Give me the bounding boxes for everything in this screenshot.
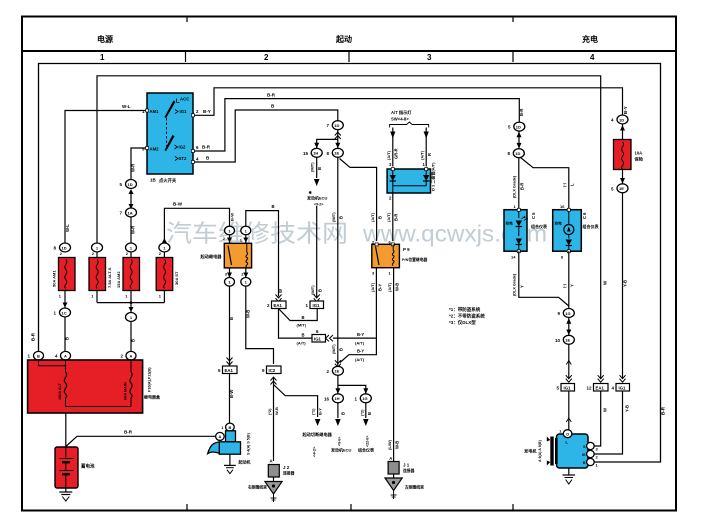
- svg-text:B: B: [37, 354, 40, 359]
- fuse output bus: [97, 302, 164, 304]
- connector J1: [388, 456, 414, 474]
- wire 2(1E) fork to 16(1H) and 1(1G): [338, 375, 366, 393]
- wire C6 pin8 down to 9(1G): [568, 251, 570, 308]
- svg-text:发动机ECU: 发动机ECU: [330, 447, 352, 453]
- connector box 5 EA1: [218, 366, 237, 374]
- svg-text:(A/T): (A/T): [386, 150, 391, 160]
- svg-text:保险: 保险: [634, 156, 644, 163]
- svg-text:Y: Y: [570, 284, 575, 287]
- double chevron into 5 IG1: [566, 375, 572, 382]
- wire 8(1D) to C5: [518, 158, 520, 210]
- svg-text:F10(A),F11(B): F10(A),F11(B): [148, 367, 152, 392]
- svg-text:1H: 1H: [334, 396, 339, 401]
- svg-text:B-R: B-R: [124, 430, 133, 435]
- svg-text:(A/T): (A/T): [297, 341, 307, 346]
- wire fork from 7(1D): [317, 130, 338, 149]
- wire B-R main loop (battery feed: fusebox B terminal, around top, to alternator B): [39, 64, 661, 463]
- svg-text:A 9(A) A 9(B): A 9(A) A 9(B): [538, 439, 542, 462]
- svg-text:B: B: [131, 339, 136, 342]
- double chevron into 1 IG1: [314, 295, 320, 302]
- svg-text:A: A: [389, 456, 392, 461]
- wire 16(1H) to ECU: [337, 403, 339, 418]
- arrows between 9(1G) and 10(1E): [566, 318, 571, 336]
- wire B-R (ignition IG2 pin6 to 5(1D) charge circuit): [193, 99, 519, 151]
- wire D1 pin2 to P9: [392, 193, 394, 241]
- connector box 4 IG1: [611, 384, 629, 392]
- diode symbols: [392, 171, 394, 175]
- alternator B terminal: [587, 458, 595, 465]
- svg-text:15: 15: [303, 151, 309, 156]
- svg-text:B-W: B-W: [229, 390, 234, 398]
- svg-text:Y: Y: [520, 285, 525, 288]
- wire coil return to 2 EA1: [246, 211, 279, 297]
- wire P9 pin1 W-B down to J1: [393, 268, 395, 461]
- double chevron into 4 IG1: [620, 375, 626, 382]
- svg-text:B: B: [367, 412, 372, 415]
- fusible link 60A MAIN: [124, 360, 133, 407]
- svg-text:AM2: AM2: [150, 147, 160, 152]
- svg-text:<4-2>: <4-2>: [312, 446, 317, 457]
- alternator S terminal: [587, 442, 595, 449]
- contact IG2: [175, 145, 178, 149]
- svg-text:点火开关: 点火开关: [159, 177, 177, 184]
- svg-text:(*2): (*2): [360, 409, 365, 416]
- mechanical link dashed: [166, 118, 168, 146]
- branch 8(1D) to C6: [521, 158, 569, 210]
- wire 5 IG1 to alternator L: [568, 391, 570, 430]
- svg-text:(A/T): (A/T): [386, 212, 391, 222]
- svg-text:(-): (-): [562, 182, 567, 187]
- ground battery: [59, 488, 72, 501]
- wire IC2 to J2: [273, 378, 275, 461]
- svg-text:1D: 1D: [128, 182, 133, 187]
- svg-text:B: B: [302, 315, 305, 320]
- svg-text:(M/T): (M/T): [310, 285, 315, 295]
- connector 7(1A): [119, 208, 136, 217]
- wire 50A fuse to 1C: [64, 291, 66, 309]
- svg-text:GR-R: GR-R: [394, 148, 399, 159]
- fuse 50A AM1: [52, 251, 76, 299]
- svg-text:A: A: [218, 434, 221, 439]
- svg-text:B-R: B-R: [661, 406, 666, 415]
- svg-text:R: R: [427, 153, 432, 156]
- svg-text:组合仪表: 组合仪表: [531, 223, 547, 229]
- arrow into bus connector: [129, 303, 134, 313]
- svg-text:<22-6>: <22-6>: [366, 436, 370, 447]
- connector 1 below bus: [126, 313, 137, 322]
- svg-text:W-L: W-L: [122, 104, 131, 109]
- starter terminal B: [226, 423, 235, 431]
- svg-text:J 1: J 1: [403, 463, 410, 468]
- wire 5(1E) to 4 IG1: [622, 193, 624, 379]
- svg-text:1E: 1E: [334, 151, 339, 156]
- svg-text:发动机ECU: 发动机ECU: [306, 195, 328, 201]
- starter nose: [208, 442, 220, 454]
- relay box: [224, 243, 251, 268]
- svg-text:起动继电器: 起动继电器: [200, 253, 223, 260]
- alternator IG terminal: [587, 450, 595, 457]
- svg-text:(M/T): (M/T): [331, 344, 336, 354]
- svg-text:左侧围线束: 左侧围线束: [404, 485, 424, 490]
- wire B-R battery to starter: [66, 436, 216, 446]
- ground triangle J1: [385, 474, 424, 499]
- wire relay coil to IC2: [246, 286, 274, 364]
- connector box 5 IG1: [556, 384, 574, 392]
- svg-text:1D: 1D: [516, 124, 521, 129]
- svg-text:16: 16: [324, 396, 330, 401]
- arrow into 1C: [63, 303, 68, 308]
- svg-text:B-R: B-R: [202, 145, 211, 150]
- svg-text:W: W: [278, 289, 283, 293]
- arrow into 16(1H): [335, 388, 340, 394]
- connector box 12 EA1: [586, 384, 608, 392]
- svg-text:C 6: C 6: [582, 212, 587, 219]
- svg-text:B: B: [272, 204, 275, 209]
- svg-text:*3：仅DLX型: *3：仅DLX型: [449, 319, 476, 326]
- wire B-Y A/T lower to 2(1E): [340, 338, 376, 362]
- connector box 2 EA1: [267, 301, 286, 309]
- svg-text:(M/T): (M/T): [297, 323, 307, 328]
- P/N position relay P9: [372, 240, 428, 276]
- svg-text:AM1: AM1: [150, 109, 160, 114]
- svg-text:B: B: [65, 337, 70, 340]
- svg-text:充电: 充电: [506, 221, 514, 226]
- wire C5 pin14 down and over: [519, 251, 569, 306]
- svg-text:O: O: [566, 432, 569, 437]
- relay coil: [246, 253, 248, 268]
- wire 4 IG1 to alternator IG: [595, 391, 623, 454]
- wire 8(1E) down to 2(1E): [337, 157, 339, 366]
- svg-text:起动机: 起动机: [238, 459, 251, 465]
- arrow to start cut relay: [315, 419, 321, 426]
- svg-text:S 4(A) S 5(B): S 4(A) S 5(B): [247, 432, 251, 455]
- svg-text:(A/T): (A/T): [355, 341, 365, 346]
- svg-text:A: A: [269, 459, 272, 464]
- svg-text:右侧围线束: 右侧围线束: [247, 485, 267, 490]
- svg-text:10A: 10A: [635, 151, 643, 156]
- fuse 15A AM2: [116, 243, 140, 303]
- svg-text:(*2): (*2): [267, 408, 272, 415]
- diode block D1: [387, 162, 435, 201]
- svg-text:60A MAIN: 60A MAIN: [124, 382, 128, 400]
- connector 7(1D): [326, 121, 343, 130]
- wire P9 pin3 B-Y down: [375, 268, 377, 338]
- svg-text:B: B: [318, 289, 323, 292]
- connector 5(1D) AM2: [119, 180, 136, 189]
- contact ACC: [177, 99, 180, 103]
- svg-text:<9-2>: <9-2>: [314, 203, 323, 207]
- svg-text:继电器盒: 继电器盒: [144, 394, 161, 400]
- connector J2: [268, 459, 294, 478]
- svg-text:1D: 1D: [619, 117, 624, 122]
- alternator 发电机: [524, 429, 599, 485]
- wire 15(1H) to ECU: [316, 157, 318, 178]
- svg-text:(*1): (*1): [311, 408, 316, 415]
- wire 12 EA1 to alternator S: [595, 391, 601, 446]
- svg-text:W-B: W-B: [246, 310, 251, 318]
- wire W-L (AM1 feed from 50A fuse): [65, 111, 147, 244]
- svg-text:A: A: [64, 354, 67, 359]
- connector 15(1H): [303, 148, 322, 157]
- svg-text:(A/T): (A/T): [387, 282, 392, 292]
- svg-text:B-R: B-R: [394, 214, 399, 221]
- svg-text:(L/W): (L/W): [387, 439, 392, 450]
- combination meter C5 (charge warning lamp): [504, 204, 547, 260]
- svg-text:B: B: [228, 425, 231, 430]
- svg-text:起动: 起动: [335, 34, 352, 44]
- svg-text:B-R: B-R: [31, 332, 36, 341]
- svg-text:1D: 1D: [334, 123, 339, 128]
- ignition switch 1B 点火开关: [142, 93, 199, 184]
- svg-text:蓄电池: 蓄电池: [81, 463, 95, 470]
- svg-text:EA1: EA1: [274, 303, 283, 308]
- wire W-R (AM2 feed from 15A fuse via 1D/1A connectors): [131, 148, 147, 180]
- wire 1A to 15A AM2 fuse: [130, 217, 132, 243]
- connector 8(1D) charge: [507, 149, 524, 158]
- connector 9(1G): [557, 309, 574, 318]
- wire B-Y A/T from P9 pin3: [333, 337, 376, 339]
- svg-text:IG2: IG2: [179, 145, 187, 150]
- double chevron into 2 EA1: [276, 295, 282, 302]
- svg-text:充电: 充电: [582, 34, 598, 44]
- arrowhead mid 2: [566, 418, 571, 422]
- double chevron below 7(1D): [335, 132, 341, 139]
- svg-text:*2：不带防盗系统: *2：不带防盗系统: [449, 313, 485, 320]
- svg-text:IG1: IG1: [180, 109, 188, 114]
- svg-text:B: B: [229, 317, 234, 320]
- svg-text:SW<4-8>: SW<4-8>: [391, 117, 409, 122]
- svg-text:B-Y: B-Y: [357, 332, 364, 337]
- starter solenoid: [226, 431, 236, 442]
- svg-text:EA1: EA1: [225, 368, 234, 373]
- svg-text:W: W: [603, 408, 608, 412]
- svg-text:W-B: W-B: [395, 283, 400, 291]
- arrow into 1(1G): [363, 388, 368, 394]
- wire bus connector to fusebox A2: [130, 322, 132, 352]
- frame section ticks: [186, 17, 514, 510]
- lever AM2: [165, 135, 175, 151]
- wire fusebox to battery: [65, 413, 67, 447]
- svg-text:3: 3: [427, 53, 432, 62]
- svg-text:B-Y: B-Y: [357, 349, 364, 354]
- svg-text:A: A: [130, 354, 133, 359]
- M/T merge wire EA1-IG1: [279, 309, 318, 321]
- starter body: [219, 442, 240, 454]
- svg-text:L: L: [570, 183, 575, 186]
- svg-text:W-B: W-B: [395, 441, 400, 449]
- svg-text:(M/T): (M/T): [331, 212, 336, 222]
- wire A/T SW to D1 pin3 with arrow: [390, 128, 395, 167]
- svg-text:7.5A ALT-S: 7.5A ALT-S: [107, 267, 112, 288]
- svg-text:W-R: W-R: [131, 164, 136, 172]
- connector 10(1E): [555, 335, 574, 344]
- wire 1D to 1A: [130, 194, 132, 204]
- battery 蓄电池: [55, 447, 95, 488]
- svg-text:B: B: [302, 333, 305, 338]
- starter terminal A: [216, 432, 225, 440]
- arrow into 15(1H): [314, 143, 319, 149]
- svg-text:IG: IG: [582, 453, 586, 457]
- svg-text:1D: 1D: [62, 245, 67, 250]
- svg-text:D 1 二极管(A/T): D 1 二极管(A/T): [430, 162, 436, 191]
- connector 16(1H): [324, 394, 343, 403]
- connector box 9 IC2: [262, 366, 281, 374]
- svg-text:P/N位置继电器: P/N位置继电器: [402, 257, 428, 262]
- svg-text:B: B: [339, 348, 344, 351]
- svg-text:汽车维修技术网: 汽车维修技术网: [166, 221, 348, 248]
- starter relay 起动继电器: [200, 226, 252, 286]
- svg-text:50A AM1: 50A AM1: [52, 270, 57, 287]
- brace: [390, 122, 429, 128]
- double chevron below IC2: [271, 377, 277, 385]
- svg-text:Y-B: Y-B: [625, 405, 630, 412]
- alternator L terminal circle: [563, 430, 572, 438]
- wire 1(1G) to combination meter: [365, 403, 367, 418]
- connector 8(1D) 50A fuse top: [53, 243, 70, 252]
- svg-text:1G: 1G: [362, 396, 367, 401]
- svg-text:B: B: [341, 412, 346, 415]
- pulley: [550, 437, 553, 466]
- branch 8(1E) to P9 pin2: [340, 159, 377, 242]
- wire 1C to fusebox A: [64, 317, 66, 352]
- svg-text:B-Y: B-Y: [203, 109, 211, 114]
- fuse 7.5A ALT-S: [89, 243, 112, 303]
- pin square ST2: [191, 161, 194, 164]
- wire A/T SW to D1 pin1 with arrow: [424, 128, 429, 167]
- pin square AM1: [146, 109, 149, 112]
- connector box 1 IG1: [305, 301, 323, 309]
- wire ALT-S feed (7.5A ALT-S fuse top across top to 12 EA1): [97, 76, 601, 379]
- svg-text:(-): (-): [562, 283, 567, 288]
- svg-text:1E: 1E: [334, 369, 339, 374]
- wire relay contact to 5 EA1 to starter: [229, 286, 231, 423]
- fusible link 100A ALT: [58, 360, 67, 407]
- svg-text:起动切断继电器: 起动切断继电器: [302, 431, 333, 438]
- svg-text:P 9: P 9: [403, 247, 410, 252]
- pin square IG2: [191, 150, 194, 153]
- svg-text:B-Y: B-Y: [623, 106, 628, 114]
- svg-text:B-R: B-R: [520, 183, 525, 190]
- starter motor 起动机: [208, 423, 251, 474]
- connector 5(1D) charge: [508, 122, 525, 131]
- svg-text:充电: 充电: [555, 221, 563, 226]
- svg-text:B: B: [583, 461, 586, 465]
- svg-text:电源: 电源: [97, 34, 113, 44]
- arrow into 8(1E): [335, 143, 340, 149]
- svg-text:100A ALT: 100A ALT: [58, 382, 62, 400]
- second diode: [518, 227, 520, 237]
- svg-text:15A AM2: 15A AM2: [116, 271, 121, 288]
- contact IG1: [175, 110, 178, 114]
- svg-text:B-Y: B-Y: [318, 408, 323, 415]
- LED symbol: [518, 211, 520, 218]
- connector 1 IG1 feed from ECU: [316, 206, 318, 297]
- svg-text:W-R: W-R: [131, 226, 136, 234]
- connector 8(1E): [326, 148, 343, 157]
- connector 1(1G): [354, 394, 371, 403]
- svg-text:C 5: C 5: [531, 212, 536, 219]
- svg-text:ACC: ACC: [180, 97, 189, 102]
- ground triangle J2 (body ground): [247, 477, 282, 502]
- svg-text:Y-B: Y-B: [623, 280, 628, 287]
- wire B (ignition ST2 pin4 to 7(1D)): [193, 110, 338, 162]
- svg-text:(DLX Grade): (DLX Grade): [513, 273, 517, 296]
- svg-text:(M/T): (M/T): [310, 162, 315, 172]
- double chevron into 5 EA1: [227, 358, 233, 366]
- svg-text:1G: 1G: [565, 311, 570, 316]
- contact ST2: [175, 157, 178, 161]
- svg-text:*1：带防盗系统: *1：带防盗系统: [449, 306, 481, 313]
- lever AM1: [165, 101, 176, 119]
- svg-text:J 2: J 2: [283, 465, 290, 470]
- svg-text:(DLX Grade): (DLX Grade): [513, 175, 517, 198]
- svg-text:B: B: [378, 216, 383, 219]
- svg-text:B-Y: B-Y: [378, 284, 383, 291]
- svg-text:IG1: IG1: [314, 337, 322, 342]
- svg-text:连接器: 连接器: [283, 471, 295, 476]
- relay pin arrows: [227, 238, 232, 243]
- svg-text:(A/T): (A/T): [370, 282, 375, 292]
- svg-text:14: 14: [511, 255, 516, 260]
- svg-text:B-R: B-R: [267, 93, 276, 98]
- svg-text:B-R: B-R: [519, 109, 524, 116]
- svg-text:IG1: IG1: [564, 386, 572, 391]
- junction dot: [130, 301, 133, 304]
- connector 2(1E): [326, 360, 343, 375]
- svg-text:2: 2: [264, 53, 269, 62]
- svg-text:(A/T): (A/T): [370, 212, 375, 222]
- svg-text:1E: 1E: [565, 338, 570, 343]
- svg-text:12: 12: [586, 386, 592, 391]
- svg-text:组合仪表: 组合仪表: [358, 447, 374, 453]
- ground alternator: [568, 468, 570, 475]
- P9 coil: [392, 251, 394, 266]
- fusebox terminal 4(A): [55, 351, 71, 360]
- wire B-W (30A ST fuse top to starter relay): [164, 208, 229, 243]
- svg-text:发电机: 发电机: [524, 448, 537, 455]
- arrows between 5(1D) and 8(1D): [517, 131, 522, 149]
- arrow to ECU: [314, 179, 320, 186]
- combination meter C6 (gauge): [553, 204, 599, 260]
- svg-text:A/T 指示灯: A/T 指示灯: [391, 109, 412, 116]
- svg-text:1E: 1E: [619, 186, 624, 191]
- fusebox terminal 1(B): [27, 351, 43, 360]
- svg-text:30A ST: 30A ST: [174, 271, 179, 285]
- relay switch blade: [228, 246, 232, 266]
- svg-text:1H: 1H: [313, 151, 318, 156]
- ground starter: [229, 454, 231, 465]
- svg-text:W-B: W-B: [274, 407, 279, 415]
- relay top connector circles: [225, 226, 235, 235]
- pin square IG1: [191, 114, 194, 117]
- svg-text:IC2: IC2: [269, 368, 276, 373]
- svg-text:B-W: B-W: [173, 202, 183, 207]
- svg-text:B-W: B-W: [230, 213, 235, 221]
- fusebox internal bus: [66, 406, 132, 408]
- fusebox (relay block): [28, 360, 143, 413]
- svg-text:1C: 1C: [62, 310, 67, 315]
- svg-text:IG1: IG1: [619, 386, 627, 391]
- fusebox internal wire from B: [39, 360, 66, 366]
- arrow pair between 1D and 1A: [129, 189, 134, 209]
- svg-text:(A/T): (A/T): [355, 357, 365, 362]
- svg-text:EA1: EA1: [596, 386, 605, 391]
- connector box 6 IG1: [312, 329, 333, 342]
- wire 10(1E) to 5 IG1: [568, 344, 570, 378]
- svg-text:16: 16: [560, 204, 565, 209]
- wire B-Y (ignition IG1 pin2 to 10A gauge fuse): [193, 88, 623, 116]
- branch to start cut relay: [274, 385, 318, 418]
